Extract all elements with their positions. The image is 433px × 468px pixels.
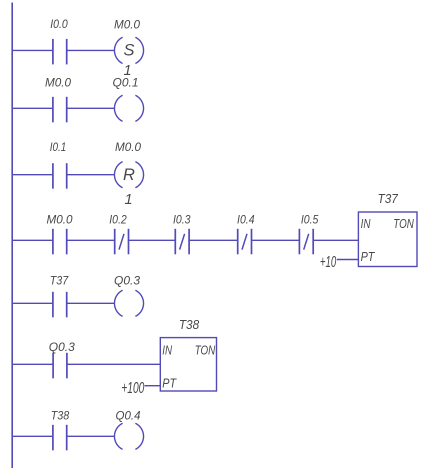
- svg-text:PT: PT: [162, 376, 177, 390]
- svg-text:Q0.4: Q0.4: [116, 409, 141, 423]
- svg-text:T38: T38: [179, 318, 199, 332]
- svg-text:I0.3: I0.3: [173, 213, 191, 227]
- svg-text:TON: TON: [393, 217, 414, 231]
- svg-text:I0.4: I0.4: [237, 213, 255, 227]
- svg-text:I0.5: I0.5: [301, 213, 319, 227]
- svg-text:TON: TON: [195, 343, 216, 357]
- svg-text:I0.1: I0.1: [50, 140, 67, 154]
- svg-text:1: 1: [124, 192, 132, 208]
- svg-text:+10: +10: [320, 254, 336, 271]
- svg-text:+100: +100: [121, 380, 144, 397]
- svg-text:S: S: [123, 42, 134, 60]
- svg-text:Q0.3: Q0.3: [49, 340, 75, 354]
- svg-text:T38: T38: [51, 409, 70, 423]
- svg-text:M0.0: M0.0: [47, 213, 73, 227]
- svg-text:M0.0: M0.0: [115, 140, 141, 154]
- svg-text:IN: IN: [361, 217, 372, 231]
- svg-text:PT: PT: [361, 250, 376, 264]
- svg-text:T37: T37: [378, 192, 399, 206]
- svg-text:IN: IN: [162, 343, 173, 357]
- svg-text:Q0.3: Q0.3: [114, 274, 140, 288]
- svg-text:R: R: [123, 166, 135, 184]
- svg-text:T37: T37: [50, 274, 70, 288]
- svg-text:I0.2: I0.2: [109, 213, 127, 227]
- svg-text:I0.0: I0.0: [50, 17, 68, 31]
- svg-text:Q0.1: Q0.1: [113, 76, 139, 90]
- svg-text:M0.0: M0.0: [45, 76, 71, 90]
- svg-text:M0.0: M0.0: [114, 18, 140, 32]
